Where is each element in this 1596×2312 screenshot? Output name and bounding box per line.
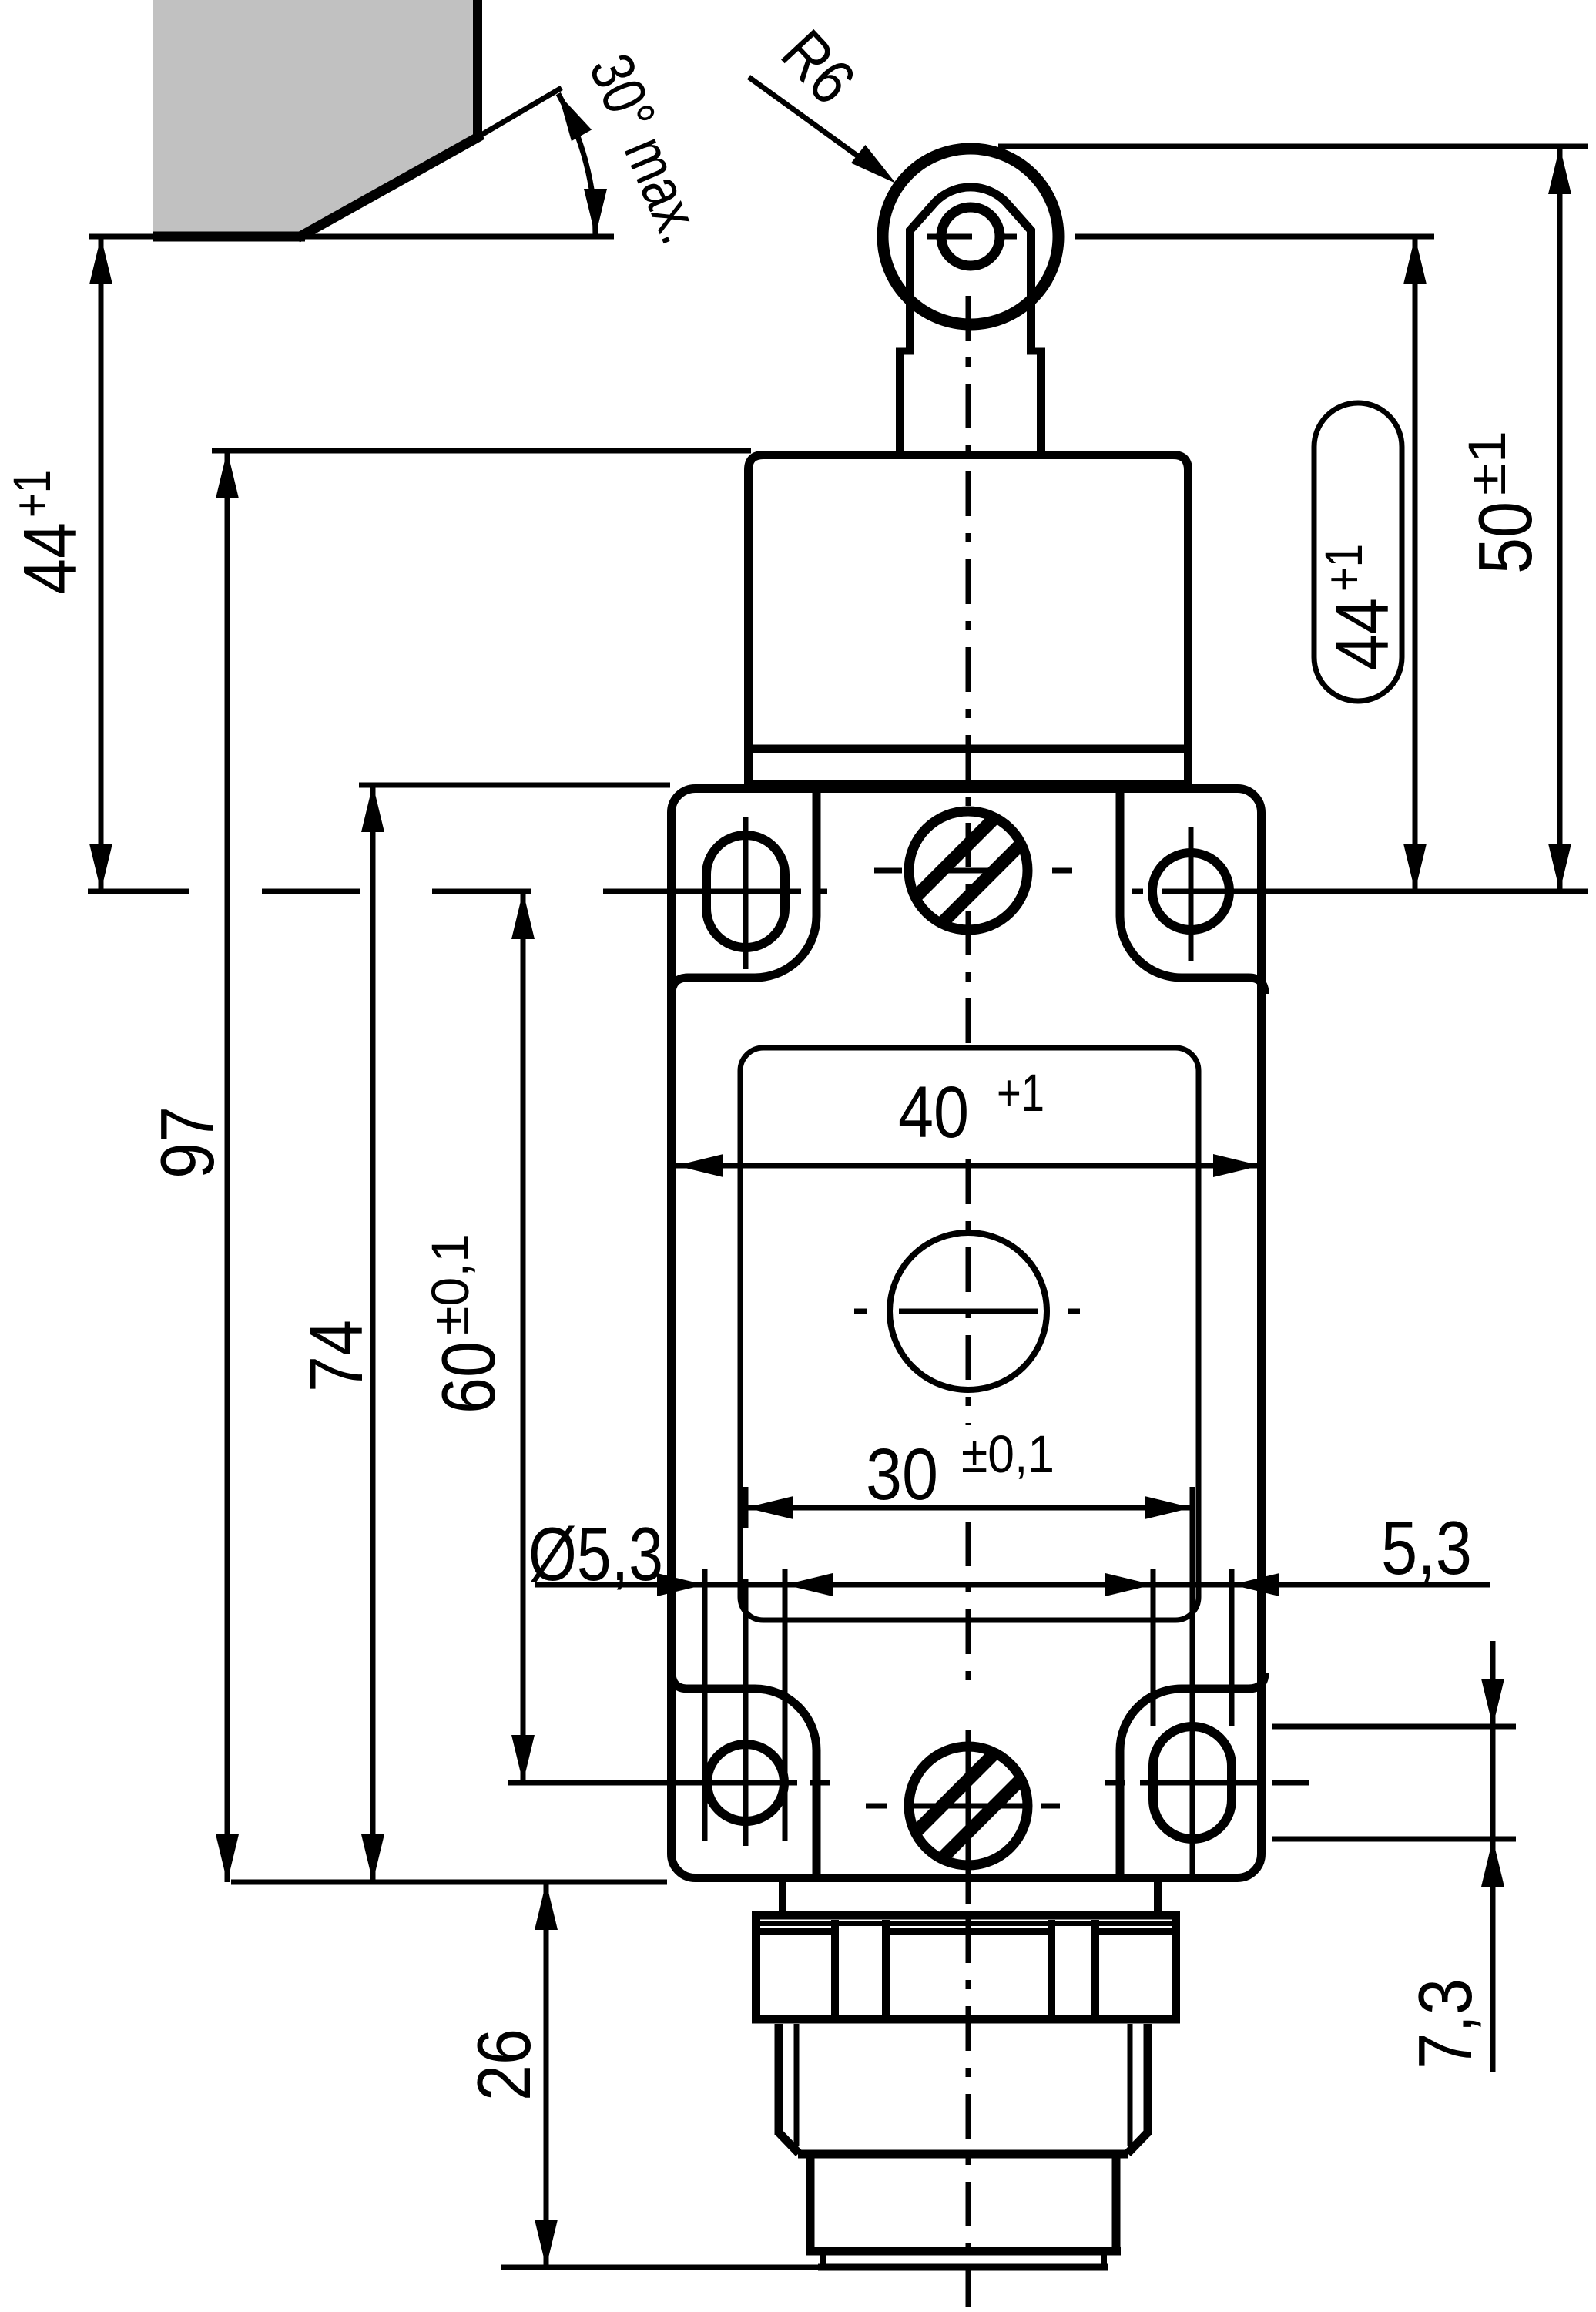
neck right [1154,1882,1162,1911]
cover plate [740,1048,1199,1620]
dim 44+1 left line [99,237,104,891]
cam chamfer edge 30deg [297,135,482,238]
ear contour bottom-left [672,1673,816,1877]
plug right edge [1112,2157,1121,2251]
ext lines diam 5,3 [702,1569,708,1841]
center hole centerline horizontal [854,1309,867,1314]
bottom-left hole vertical centerline [743,1579,749,1846]
ear contour bottom-right [1120,1673,1265,1877]
mounting hole top-right [1152,853,1229,930]
svg-text:Ø5,3: Ø5,3 [528,1512,663,1596]
cam bottom edge [153,232,305,242]
plug lip bottom [818,2264,1108,2271]
svg-text:26: 26 [461,2028,546,2101]
angle arc 30 deg [558,94,595,237]
pin center extension right [1075,234,1434,240]
plug lip left [820,2251,826,2267]
reference surface line [89,234,614,240]
cam block (gray actuator) [153,0,478,237]
body bottom extension left [231,1880,667,1885]
ext lines 30 [743,1487,749,1528]
angle arc arrow upper [558,94,592,142]
svg-text:97: 97 [145,1106,230,1179]
dim 44+1 right line [1413,237,1418,891]
svg-text:7,3: 7,3 [1403,1978,1487,2069]
gland nut inner top line [759,1921,1173,1926]
ext lines 5,3 right [1151,1569,1156,1726]
roller circle R6 [883,149,1058,324]
mounting hole bottom-left [707,1744,784,1821]
stem wide left [896,351,904,455]
mounting hole bottom-right (slot) [1153,1726,1232,1839]
svg-text:30: 30 [866,1434,938,1515]
fork arch with chamfers [910,187,1031,354]
mounting hole top-left (slot) [706,835,785,948]
roller top extension line [998,144,1588,149]
dim 74 line [370,784,376,1882]
head top extension line left [212,448,751,454]
plug left edge [806,2157,815,2251]
dim 60+-0,1 line [521,891,526,1783]
dim 26 line [544,1882,549,2267]
screw bottom [909,1747,1028,1865]
bottom-right slot vertical centerline [1190,1492,1195,1877]
bushing left edge [775,2024,783,2135]
stem step [896,348,914,355]
gland nut chamfer lines [760,1928,835,1935]
bottom-right slot centerline [1105,1780,1125,1786]
dim 44+1 right capsule [1314,403,1402,701]
bottom-left hole centerline [508,1780,797,1786]
screw top [909,811,1028,930]
dim 26 tick bottom [501,2265,820,2270]
cam right edge [473,0,482,139]
roller pin [941,207,1000,266]
screw bottom centerline [866,1804,887,1809]
dim 40+1 line [676,1163,1261,1169]
center hole [890,1233,1047,1390]
svg-text:40: 40 [898,1072,969,1153]
main vertical centerline [966,296,971,1044]
head joint line [744,745,1192,753]
neck left [779,1882,786,1911]
dim 7,3 extension bottom [1272,1837,1516,1842]
svg-text:74: 74 [293,1320,378,1392]
dim 50+-1 line [1557,146,1563,891]
gland nut hex facet lines [831,1920,839,2015]
stem wide right [1037,351,1045,455]
bushing bottom edge [798,2150,1128,2159]
dim 97 line [225,451,230,1882]
pin center dash left [927,234,972,240]
dim 5,3 / diam 5,3 shared line [535,1582,1490,1588]
plug lip right [1101,2251,1107,2267]
angle arc arrow lower [584,189,607,237]
bushing thread line right [1128,2024,1133,2146]
head box [749,455,1189,785]
dim 7,3 line [1490,1641,1496,2072]
R6 leader line [749,77,883,174]
chamfer extension line [478,88,562,137]
flange top extension line left [359,783,670,788]
bushing chamfer right [1128,2132,1148,2153]
svg-text:+1: +1 [997,1063,1044,1122]
screw bottom vertical centerline [966,1730,971,1904]
screw top centerline [874,868,902,874]
dim 30+-0,1 line [746,1505,1192,1511]
gland nut right edge [1172,1911,1180,2019]
top holes centerline left segments [88,889,189,894]
gland nut top edge [752,1911,1180,1920]
gland nut bottom edge [752,2015,1180,2024]
svg-text:5,3: 5,3 [1381,1505,1472,1590]
top-left slot vertical centerline [743,817,749,969]
plug bottom edge [806,2247,1121,2256]
dim 7,3 extension top [1272,1724,1516,1730]
ear contour top-right [1120,789,1265,994]
top holes centerline right segments [1132,889,1143,894]
bushing chamfer left [779,2132,799,2153]
svg-text:±0,1: ±0,1 [961,1424,1054,1484]
bushing thread line left [794,2024,800,2146]
gland nut left edge [752,1911,760,2019]
body flange outline [672,789,1262,1878]
R6 leader arrow [851,145,896,183]
ear contour top-left [672,789,816,994]
top-right hole vertical centerline [1189,827,1194,961]
bushing right edge [1144,2024,1152,2135]
